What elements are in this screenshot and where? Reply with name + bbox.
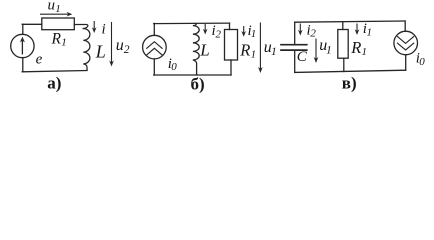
chevrons down inside source v) bbox=[398, 37, 414, 44]
wire a) left vertical top bbox=[22, 24, 24, 34]
wire b) stub rail to box top bbox=[229, 23, 231, 29]
u1 arrow a) bbox=[40, 13, 70, 15]
svg-text:б): б) bbox=[191, 74, 205, 93]
svg-text:1: 1 bbox=[271, 46, 277, 58]
u1 arrow v) bbox=[315, 39, 317, 61]
current source i0 circle v) bbox=[394, 31, 418, 55]
svg-text:R: R bbox=[51, 31, 62, 48]
svg-text:L: L bbox=[95, 41, 106, 61]
svg-text:R: R bbox=[239, 41, 250, 60]
current source i0 circle b) bbox=[143, 35, 167, 59]
svg-text:2: 2 bbox=[216, 29, 222, 41]
svg-text:0: 0 bbox=[419, 56, 425, 68]
u1 arrow b) bbox=[259, 23, 261, 71]
wire v) stub rail to R box bbox=[342, 22, 344, 30]
wire a) box to coil bbox=[74, 25, 88, 29]
voltage source e circle bbox=[11, 34, 34, 57]
source arrow inside e bbox=[21, 39, 23, 54]
svg-text:1: 1 bbox=[326, 45, 332, 57]
svg-text:1: 1 bbox=[61, 37, 67, 49]
resistor R1 box bbox=[42, 18, 75, 30]
svg-text:2: 2 bbox=[124, 44, 130, 56]
wire b) box bottom stub bbox=[230, 60, 232, 75]
wire v) cap branch bottom bbox=[294, 51, 296, 73]
inductor L coil a) bbox=[83, 29, 90, 71]
svg-text:1: 1 bbox=[251, 49, 257, 61]
current i arrow a) bbox=[93, 21, 95, 31]
resistor R1 box b) bbox=[225, 30, 238, 61]
svg-text:e: e bbox=[36, 51, 43, 67]
current i1 arrow b) bbox=[243, 26, 245, 34]
svg-text:0: 0 bbox=[171, 61, 177, 73]
u2 arrow a) bbox=[111, 22, 113, 64]
svg-text:i: i bbox=[102, 22, 106, 38]
arrowhead source e bbox=[20, 37, 25, 43]
wire v) R box bottom stub bbox=[343, 58, 345, 71]
wire b) left vertical top bbox=[153, 23, 155, 35]
wire b) bottom rail bbox=[154, 74, 231, 76]
wire v) top rail bbox=[295, 21, 405, 22]
wire b) left vertical bottom bbox=[153, 59, 155, 75]
svg-text:а): а) bbox=[47, 73, 61, 92]
inductor L coil b) bbox=[193, 23, 199, 75]
wire v) right vertical top bbox=[404, 21, 406, 31]
svg-text:в): в) bbox=[342, 73, 357, 92]
current i2 arrow b) bbox=[204, 24, 206, 32]
svg-text:2: 2 bbox=[310, 28, 316, 40]
svg-text:1: 1 bbox=[251, 28, 257, 40]
svg-text:u: u bbox=[48, 0, 56, 14]
capacitor C upper plate bbox=[281, 44, 307, 46]
capacitor C lower plate bbox=[281, 49, 307, 51]
wire v) cap branch top bbox=[294, 22, 296, 44]
current i2 arrow v) bbox=[299, 24, 301, 34]
wire a) left vertical bottom bbox=[22, 58, 24, 72]
wire b) top rail bbox=[154, 22, 230, 25]
svg-text:1: 1 bbox=[55, 3, 61, 15]
svg-text:C: C bbox=[297, 49, 308, 65]
wire v) bottom rail bbox=[295, 70, 406, 72]
resistor R1 box v) bbox=[338, 30, 348, 59]
wire a) top rail bbox=[22, 23, 42, 25]
svg-text:1: 1 bbox=[367, 27, 373, 39]
svg-text:L: L bbox=[199, 41, 209, 60]
chevrons up inside source b) bbox=[147, 42, 162, 49]
svg-text:1: 1 bbox=[362, 46, 368, 58]
wire a) bottom rail bbox=[22, 71, 87, 72]
svg-text:R: R bbox=[350, 38, 361, 57]
current i1 arrow v) bbox=[356, 24, 358, 33]
wire v) right vertical bottom bbox=[405, 55, 407, 71]
svg-text:u: u bbox=[116, 37, 124, 54]
